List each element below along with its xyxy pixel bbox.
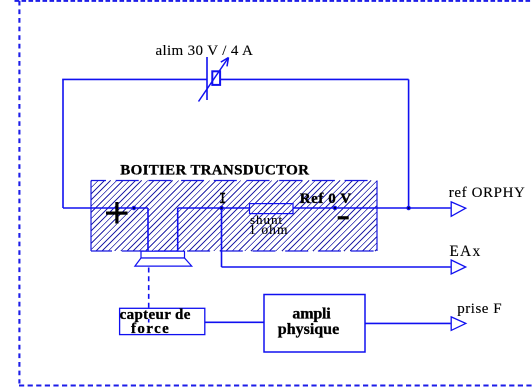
node junction I [220, 206, 223, 209]
minus terminal symbol [338, 216, 349, 219]
svg-text:1 ohm: 1 ohm [249, 222, 289, 237]
wire speaker up to I node [177, 208, 179, 252]
plus terminal symbol [106, 202, 128, 224]
wire main input to + node [63, 207, 148, 209]
wire I node horizontal [178, 207, 250, 209]
wire ampli to prise F arrow [365, 322, 451, 324]
dashed link remnant inside box [148, 319, 150, 323]
wire + node down to speaker [147, 208, 149, 252]
output arrow EAx [451, 260, 466, 274]
speaker transducer LS1 magnet [141, 251, 185, 258]
svg-text:EAx: EAx [449, 243, 481, 260]
svg-text:physique: physique [278, 321, 339, 338]
speaker transducer LS1 cone [135, 258, 192, 266]
svg-text:BOITIER TRANSDUCTOR: BOITIER TRANSDUCTOR [120, 162, 309, 178]
svg-text:ref ORPHY: ref ORPHY [449, 185, 526, 201]
power supply PS1 body box [212, 71, 220, 85]
wire supply loop top right horizontal [221, 78, 409, 80]
svg-text:ampli: ampli [292, 305, 331, 322]
svg-text:prise F: prise F [457, 301, 502, 317]
output arrow ref ORPHY [451, 202, 466, 216]
transductor box bottom border [91, 250, 377, 252]
shunt resistor R shunt [250, 204, 294, 214]
transductor box left border [90, 181, 92, 252]
transductor box top border [91, 180, 377, 182]
page border bottom [19, 384, 532, 386]
page border top [15, 0, 532, 2]
capteur de force box [120, 308, 205, 334]
ampli physique box [264, 295, 365, 353]
power supply PS1 adjust arrow head [221, 58, 229, 67]
node junction Ref 0 V [333, 206, 336, 209]
wire supply loop right vertical [408, 79, 410, 208]
power supply PS1 adjust arrow shaft [199, 58, 229, 102]
svg-text:force: force [131, 321, 170, 337]
power supply PS1 adjustable: electrode bar [206, 57, 208, 100]
output arrow prise F [451, 317, 466, 331]
node junction at right vertical [407, 206, 410, 209]
wire supply loop top left horizontal [62, 78, 207, 80]
transductor box right border [376, 181, 378, 252]
svg-text:Ref 0 V: Ref 0 V [300, 191, 352, 207]
wire shunt to ref ORPHY arrow [293, 207, 451, 209]
label I current [220, 193, 225, 204]
svg-text:alim 30 V / 4 A: alim 30 V / 4 A [156, 43, 254, 59]
dashed link speaker to capteur [148, 268, 150, 309]
wire capteur to ampli [205, 321, 264, 323]
transductor box hatched body [91, 181, 377, 252]
page border left [18, 1, 20, 384]
wire supply loop left vertical [62, 79, 64, 208]
wire EAx horizontal [222, 266, 451, 268]
node junction at + [132, 206, 135, 209]
wire EAx vertical from I node [221, 208, 223, 267]
